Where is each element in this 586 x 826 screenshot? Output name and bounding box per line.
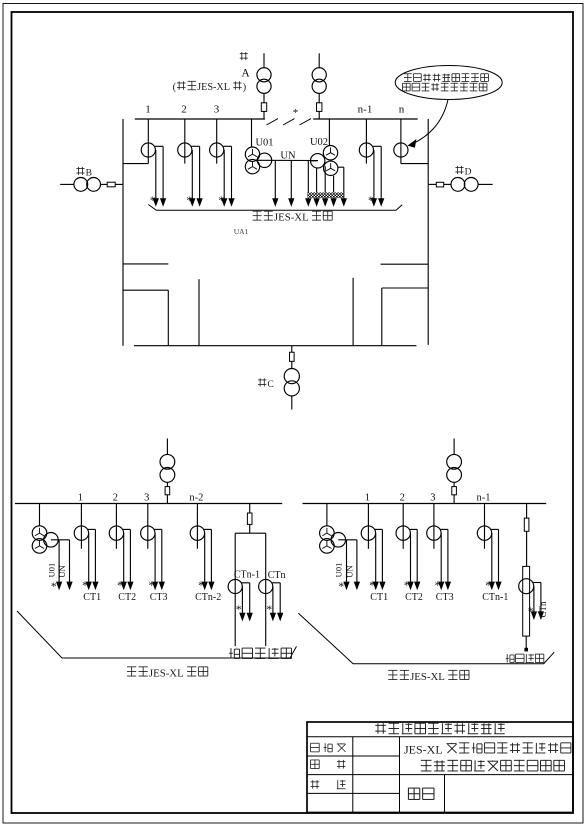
svg-text:U01: U01: [46, 563, 56, 578]
svg-text:n-1: n-1: [358, 104, 373, 116]
svg-text:B: B: [86, 168, 92, 178]
svg-text:*: *: [51, 581, 57, 593]
svg-text:CT2: CT2: [118, 592, 136, 603]
svg-text:2: 2: [400, 493, 405, 504]
svg-text:U02: U02: [310, 137, 328, 148]
svg-text:*: *: [266, 604, 272, 616]
svg-text:CTn-2: CTn-2: [195, 592, 221, 603]
svg-text:*: *: [150, 195, 156, 207]
svg-text:CTn-1: CTn-1: [234, 570, 260, 581]
svg-text:*: *: [218, 195, 224, 207]
svg-text:CT3: CT3: [436, 592, 454, 603]
svg-text:CTn: CTn: [538, 601, 548, 618]
svg-text:*: *: [186, 195, 192, 207]
svg-text:JES-XL: JES-XL: [197, 82, 230, 93]
svg-text:*: *: [435, 580, 441, 592]
svg-text:2: 2: [113, 493, 118, 504]
svg-text:*: *: [404, 580, 410, 592]
svg-text:UN: UN: [280, 151, 296, 162]
svg-text:3: 3: [144, 493, 149, 504]
svg-text:*: *: [82, 580, 88, 592]
svg-text:D: D: [465, 167, 472, 177]
svg-text:n: n: [399, 104, 405, 116]
svg-text:UN: UN: [345, 565, 355, 577]
svg-text:*: *: [149, 580, 155, 592]
svg-text:JES-XL: JES-XL: [404, 743, 443, 757]
svg-text:JES-XL: JES-XL: [274, 212, 309, 224]
svg-text:1: 1: [78, 493, 83, 504]
svg-text:*: *: [369, 580, 375, 592]
svg-text:3: 3: [430, 493, 435, 504]
svg-text:3: 3: [214, 104, 220, 116]
svg-text:*: *: [338, 581, 344, 593]
svg-text:CT1: CT1: [370, 592, 388, 603]
svg-text:n-2: n-2: [189, 493, 203, 504]
svg-text:U01: U01: [334, 563, 344, 578]
svg-text:A: A: [241, 68, 250, 80]
svg-text:1: 1: [145, 104, 151, 116]
svg-text:CT2: CT2: [405, 592, 423, 603]
svg-text:*: *: [293, 107, 299, 119]
svg-text:2: 2: [181, 104, 187, 116]
svg-text:*: *: [117, 580, 123, 592]
svg-text:U01: U01: [255, 137, 273, 148]
svg-text:(: (: [173, 82, 177, 93]
svg-text:JES-XL: JES-XL: [410, 671, 445, 683]
svg-text:JES-XL: JES-XL: [149, 668, 184, 680]
svg-text:UA1: UA1: [234, 227, 249, 236]
svg-text:CTn: CTn: [268, 570, 286, 581]
svg-text:C: C: [267, 379, 273, 390]
svg-text:*: *: [198, 580, 204, 592]
svg-text:*: *: [368, 195, 374, 207]
svg-text:n-1: n-1: [477, 493, 491, 504]
svg-text:*: *: [236, 604, 242, 616]
svg-text:CT3: CT3: [150, 592, 168, 603]
svg-text:*: *: [528, 606, 534, 618]
svg-text:1: 1: [365, 493, 370, 504]
svg-text:CT1: CT1: [83, 592, 101, 603]
svg-text:*: *: [485, 580, 491, 592]
svg-text:): ): [243, 82, 246, 93]
svg-text:UN: UN: [57, 565, 67, 577]
svg-text:CTn-1: CTn-1: [482, 592, 508, 603]
